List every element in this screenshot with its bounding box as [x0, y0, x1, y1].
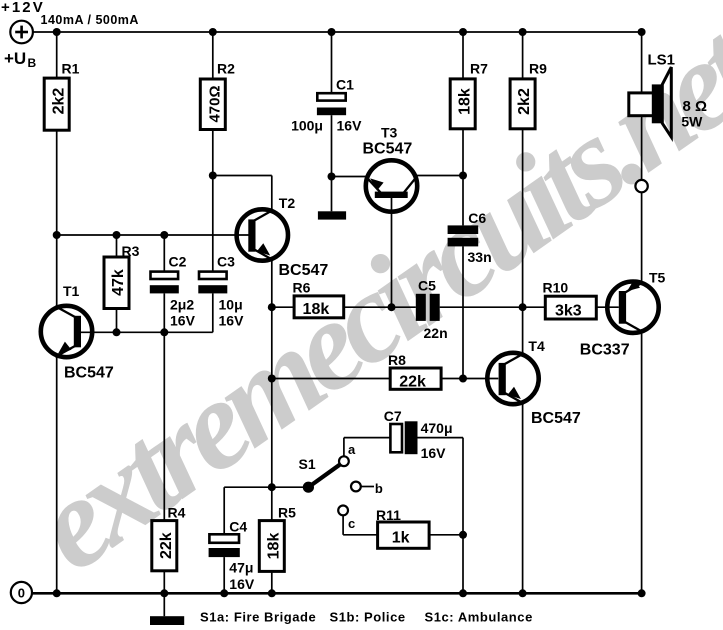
- svg-text:BC547: BC547: [363, 141, 413, 158]
- node R2 / T2 collector: [209, 172, 217, 180]
- svg-text:22k: 22k: [158, 532, 175, 559]
- node R7 / T3 collector / C6: [459, 172, 467, 180]
- connector LS1 terminal: [635, 180, 647, 192]
- node S1 feed / C4 / R5: [268, 483, 276, 491]
- svg-text:T4: T4: [528, 338, 545, 354]
- svg-text:BC547: BC547: [531, 410, 581, 427]
- svg-text:16V: 16V: [337, 118, 363, 134]
- label S1c: Ambulance: [425, 610, 533, 625]
- wire R2 top: [212, 32, 214, 79]
- wire T4 emitter to rail: [522, 402, 524, 594]
- loudspeaker LS1: [629, 52, 707, 138]
- wire connector to T5: [641, 192, 643, 283]
- wire R3 bottom: [116, 309, 118, 333]
- svg-text:R6: R6: [293, 280, 311, 296]
- svg-text:C7: C7: [384, 408, 402, 424]
- wire T3 emitter line: [332, 176, 370, 178]
- capacitor C4: [209, 519, 255, 593]
- wire R9 top: [522, 32, 524, 79]
- wire contact c to R11: [343, 515, 378, 535]
- wire T3 base: [391, 198, 393, 307]
- label S1b: Police: [330, 610, 406, 625]
- svg-text:18k: 18k: [265, 533, 282, 560]
- svg-text:0: 0: [18, 585, 25, 600]
- node C1 / T3 emitter: [328, 173, 336, 181]
- wire T2 emitter: [271, 258, 273, 307]
- wire R4 ground stub: [163, 593, 165, 616]
- svg-text:T5: T5: [649, 270, 666, 286]
- wire contact b stub: [361, 486, 374, 488]
- resistor R2: [200, 61, 235, 130]
- node top rail / R7: [459, 28, 467, 36]
- wire C7 right: [418, 438, 464, 535]
- svg-text:a: a: [348, 442, 356, 457]
- capacitor C6: [448, 210, 492, 265]
- svg-text:LS1: LS1: [648, 52, 676, 69]
- svg-text:18k: 18k: [303, 301, 330, 318]
- wire C1 top: [331, 32, 333, 93]
- switch S1 lever: [308, 465, 340, 488]
- wire R8 left: [272, 378, 390, 380]
- svg-text:S1a: Fire Brigade: S1a: Fire Brigade: [200, 610, 316, 625]
- wire C4 bottom: [223, 557, 225, 593]
- node T1 emitter / bottom rail: [53, 589, 61, 597]
- capacitor C3: [198, 254, 244, 329]
- wire R4 top: [163, 332, 165, 520]
- wire LS1 bottom to connector: [641, 116, 643, 180]
- resistor R3: [104, 243, 140, 309]
- wire base line T1/T2: [57, 234, 249, 236]
- wire +12V top rail: [33, 31, 642, 33]
- node R8 left / T2 emitter column: [268, 375, 276, 383]
- label +UB: [4, 49, 37, 70]
- svg-text:R8: R8: [388, 352, 406, 368]
- resistor R8: [388, 352, 441, 390]
- label S1: [299, 456, 316, 472]
- svg-text:BC547: BC547: [64, 365, 114, 382]
- svg-text:1k: 1k: [392, 530, 410, 547]
- label S1a: Fire Brigade: [200, 610, 316, 625]
- label +12V: [1, 0, 45, 16]
- svg-text:5W: 5W: [681, 114, 703, 130]
- resistor R11: [376, 507, 429, 548]
- transistor T4: [487, 338, 581, 427]
- svg-text:22n: 22n: [424, 325, 448, 341]
- svg-text:T3: T3: [381, 125, 398, 141]
- svg-text:C1: C1: [336, 77, 354, 93]
- wire C4 top link: [224, 487, 272, 534]
- node top rail / R1: [53, 28, 61, 36]
- wire R2 bottom to C3: [212, 130, 214, 272]
- svg-text:16V: 16V: [219, 313, 245, 329]
- wire T2-emitter column R6-R8: [271, 307, 273, 378]
- svg-text:R7: R7: [470, 61, 488, 77]
- node R4 / bottom rail: [160, 589, 168, 597]
- node C4 / bottom rail: [220, 589, 228, 597]
- svg-text:47k: 47k: [110, 269, 127, 296]
- node R5 / bottom rail: [268, 589, 276, 597]
- node T3 base / R6 / C5: [388, 303, 396, 311]
- wire C2 bottom: [163, 293, 165, 332]
- svg-text:BC337: BC337: [580, 342, 630, 359]
- wire R1 bottom to node: [56, 130, 58, 235]
- svg-text:R5: R5: [278, 505, 296, 521]
- wire C2 top: [163, 235, 165, 272]
- wire C6 bottom to R8 line: [462, 246, 464, 378]
- wire R6 left: [272, 306, 294, 308]
- wire contact a to C7: [344, 438, 391, 457]
- svg-text:T1: T1: [63, 283, 80, 299]
- svg-text:3k3: 3k3: [555, 302, 582, 319]
- wire C5 right: [440, 306, 523, 308]
- node ground column / bottom rail: [459, 589, 467, 597]
- node C5 line / R9 / R10 / T4 collector: [519, 303, 527, 311]
- wire T3 collector line: [414, 175, 464, 177]
- svg-text:140mA / 500mA: 140mA / 500mA: [41, 13, 139, 27]
- svg-text:+U: +U: [4, 49, 26, 68]
- resistor R7: [450, 61, 488, 129]
- wire T4 collector: [522, 307, 524, 355]
- capacitor C1: [291, 77, 362, 134]
- label 140mA / 500mA: [41, 13, 139, 27]
- wire C1 bottom: [331, 115, 333, 176]
- wire R11 right: [429, 534, 463, 536]
- svg-text:c: c: [348, 516, 355, 531]
- svg-text:47μ: 47μ: [229, 560, 253, 576]
- node T4 emitter / bottom rail: [519, 589, 527, 597]
- node base line / R3: [113, 231, 121, 239]
- node top rail / LS1: [638, 28, 646, 36]
- svg-text:16V: 16V: [421, 445, 447, 461]
- svg-text:100μ: 100μ: [291, 118, 323, 134]
- node top rail / R2: [209, 28, 217, 36]
- capacitor C2: [150, 254, 196, 329]
- wire ground column to rail: [462, 535, 464, 594]
- wire R7 top: [462, 32, 464, 79]
- wire R1 top: [56, 32, 58, 78]
- svg-text:18k: 18k: [457, 88, 474, 115]
- svg-text:BC547: BC547: [279, 262, 329, 279]
- wire R6-C5: [392, 306, 416, 308]
- wire C3 bottom to base line T1: [164, 293, 213, 332]
- supply terminal + (+12V): [10, 21, 33, 44]
- svg-text:R3: R3: [122, 243, 140, 259]
- svg-text:C3: C3: [217, 254, 235, 270]
- wire T5 emitter to rail: [641, 330, 643, 593]
- transistor T2: [237, 195, 329, 279]
- wire S1 feed line: [271, 379, 273, 488]
- wire T2 collector link: [213, 176, 272, 213]
- wire R5 top: [271, 487, 273, 520]
- capacitor C5: [416, 278, 448, 342]
- resistor R9: [510, 61, 547, 129]
- node top rail / R9: [519, 28, 527, 36]
- ground bar below R4: [150, 616, 184, 625]
- ground bar T3 emitter: [318, 211, 346, 219]
- svg-text:R9: R9: [529, 61, 547, 77]
- switch contact c: [338, 506, 355, 532]
- svg-text:T2: T2: [279, 195, 296, 211]
- wire T1 emitter to rail: [56, 355, 58, 594]
- svg-text:C2: C2: [169, 254, 187, 270]
- svg-text:+12V: +12V: [1, 0, 45, 16]
- supply terminal 0 (ground rail): [11, 582, 32, 603]
- svg-text:C6: C6: [468, 210, 486, 226]
- wire R6 right: [344, 306, 392, 308]
- svg-text:S1: S1: [299, 456, 316, 472]
- wire R4 bottom: [163, 571, 165, 594]
- svg-text:B: B: [28, 56, 37, 70]
- wire C6 top: [462, 176, 464, 226]
- wire R10 left: [523, 306, 546, 308]
- wire R10 right to T5 base: [596, 306, 619, 308]
- transistor T3: [363, 125, 418, 212]
- switch contact b: [351, 481, 383, 496]
- wire S1 pole line: [272, 486, 309, 488]
- resistor R4: [152, 505, 186, 571]
- svg-text:470μ: 470μ: [421, 420, 453, 436]
- node R11 / C7 / ground column: [459, 531, 467, 539]
- svg-text:R11: R11: [376, 507, 401, 523]
- node T5 emitter / bottom rail: [638, 589, 646, 597]
- svg-text:16V: 16V: [170, 313, 196, 329]
- node base line / C2: [160, 231, 168, 239]
- svg-text:R2: R2: [217, 61, 235, 77]
- wire R7 bottom: [462, 129, 464, 176]
- transistor T5: [580, 270, 666, 359]
- svg-text:22k: 22k: [399, 373, 426, 390]
- svg-text:S1b: Police: S1b: Police: [330, 610, 406, 625]
- svg-text:b: b: [375, 481, 383, 496]
- svg-text:2k2: 2k2: [516, 88, 533, 115]
- svg-text:10μ: 10μ: [219, 297, 243, 313]
- wire T3 emitter ground stub: [331, 177, 333, 212]
- node top rail / C1: [328, 28, 336, 36]
- svg-text:C5: C5: [418, 278, 436, 294]
- svg-text:470Ω: 470Ω: [206, 85, 223, 122]
- wire R9 bottom to R10 node: [522, 129, 524, 307]
- svg-text:2μ2: 2μ2: [170, 297, 194, 313]
- svg-text:33n: 33n: [468, 249, 492, 265]
- wire R3 top: [116, 235, 118, 257]
- svg-text:R10: R10: [543, 280, 569, 296]
- switch S1 pole: [303, 482, 314, 493]
- node T2 emitter / R6: [268, 303, 276, 311]
- node C6 / R8 / T4 base: [459, 375, 467, 383]
- resistor R10: [543, 280, 597, 320]
- svg-text:8 Ω: 8 Ω: [683, 98, 708, 115]
- svg-text:R4: R4: [168, 505, 186, 521]
- svg-text:2k2: 2k2: [50, 88, 67, 115]
- resistor R5: [259, 505, 296, 572]
- switch contact a: [339, 442, 356, 466]
- resistor R6: [293, 280, 344, 319]
- wire T1 base line: [81, 331, 117, 333]
- svg-text:R1: R1: [62, 61, 80, 77]
- wire T1 collector: [56, 235, 58, 308]
- wire R5 bottom: [271, 571, 273, 593]
- transistor T1: [41, 283, 114, 382]
- svg-text:16V: 16V: [229, 576, 255, 592]
- wire 0V bottom rail: [32, 592, 642, 595]
- node T1 base line / C2 R4: [160, 328, 168, 336]
- node R1 / T1 collector / base line: [53, 231, 61, 239]
- resistor R1: [44, 61, 79, 131]
- wire R8 right: [441, 378, 498, 380]
- svg-text:S1c: Ambulance: S1c: Ambulance: [425, 610, 533, 625]
- wire LS1 top: [641, 32, 643, 93]
- capacitor C7: [384, 408, 453, 461]
- wire base line R3-C2: [117, 331, 165, 333]
- node T1 base line / R3: [113, 328, 121, 336]
- svg-text:C4: C4: [229, 519, 247, 535]
